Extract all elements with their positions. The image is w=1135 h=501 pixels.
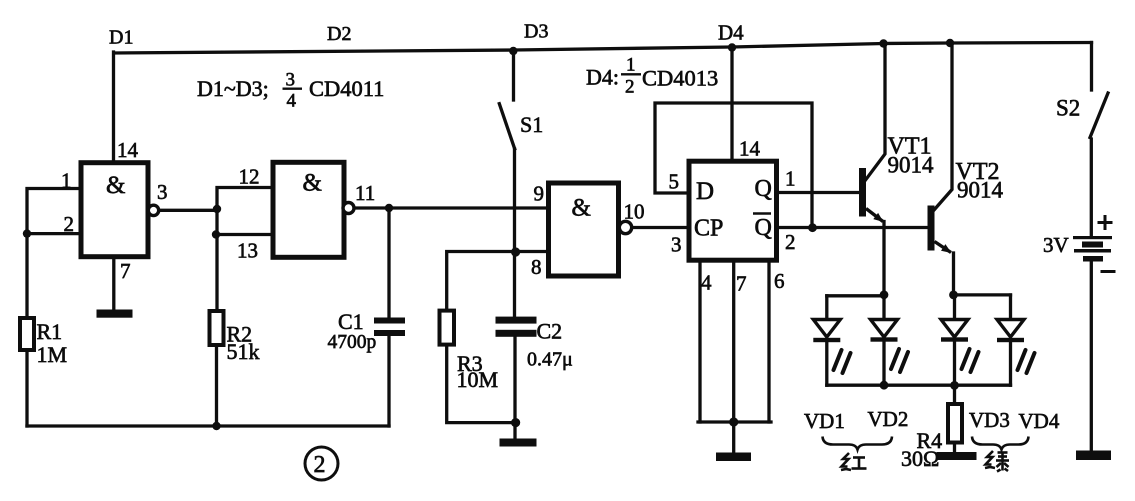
svg-text:3: 3	[157, 180, 168, 204]
svg-text:D1~D3;: D1~D3;	[197, 76, 269, 101]
svg-text:10: 10	[624, 200, 645, 224]
svg-text:1: 1	[626, 55, 636, 76]
svg-text:CD4013: CD4013	[642, 66, 718, 91]
svg-text:0.47μ: 0.47μ	[527, 349, 573, 371]
svg-text:14: 14	[739, 137, 761, 161]
svg-text:8: 8	[531, 255, 542, 279]
svg-text:1: 1	[61, 169, 72, 193]
svg-text:&: &	[106, 172, 125, 199]
svg-text:D1: D1	[109, 27, 133, 49]
svg-text:R1: R1	[37, 319, 63, 344]
svg-text:CD4011: CD4011	[309, 76, 384, 101]
svg-text:3V: 3V	[1043, 233, 1069, 257]
svg-text:4: 4	[701, 271, 712, 295]
svg-text:&: &	[303, 170, 322, 197]
svg-text:2: 2	[314, 452, 326, 478]
svg-text:D: D	[696, 178, 714, 205]
svg-text:Q: Q	[755, 176, 772, 202]
svg-text:30Ω: 30Ω	[901, 446, 939, 471]
svg-text:12: 12	[239, 165, 260, 189]
svg-text:C1: C1	[338, 309, 364, 334]
svg-text:3: 3	[286, 70, 296, 91]
svg-text:1M: 1M	[37, 342, 68, 367]
svg-text:VD4: VD4	[1019, 409, 1060, 433]
svg-text:11: 11	[355, 181, 375, 205]
svg-text:2: 2	[625, 77, 635, 98]
svg-text:13: 13	[237, 239, 258, 263]
svg-text:2: 2	[785, 230, 796, 254]
svg-text:9: 9	[534, 182, 545, 206]
svg-text:14: 14	[117, 138, 139, 162]
svg-text:VD2: VD2	[868, 407, 909, 431]
svg-text:D3: D3	[524, 21, 548, 43]
svg-text:Q: Q	[755, 215, 772, 241]
svg-text:&: &	[572, 195, 591, 222]
svg-text:10M: 10M	[457, 367, 499, 392]
svg-text:D4: D4	[718, 21, 744, 45]
svg-text:9014: 9014	[957, 178, 1004, 203]
svg-text:CP: CP	[694, 216, 723, 242]
svg-text:1: 1	[785, 167, 796, 191]
svg-text:4700p: 4700p	[328, 332, 377, 353]
svg-text:S1: S1	[520, 112, 543, 137]
svg-text:4: 4	[287, 91, 297, 112]
svg-text:S2: S2	[1056, 96, 1080, 121]
svg-text:VD3: VD3	[969, 408, 1010, 432]
svg-text:D4:: D4:	[586, 65, 619, 90]
svg-text:3: 3	[671, 233, 682, 257]
svg-text:6: 6	[774, 269, 785, 293]
svg-text:VD1: VD1	[804, 409, 845, 433]
svg-text:2: 2	[64, 212, 75, 236]
svg-text:C2: C2	[537, 319, 563, 344]
svg-text:51k: 51k	[227, 339, 260, 364]
svg-text:D2: D2	[327, 23, 351, 45]
svg-text:7: 7	[736, 272, 747, 296]
svg-text:7: 7	[120, 259, 131, 283]
svg-text:9014: 9014	[888, 153, 935, 178]
svg-text:5: 5	[669, 170, 680, 194]
